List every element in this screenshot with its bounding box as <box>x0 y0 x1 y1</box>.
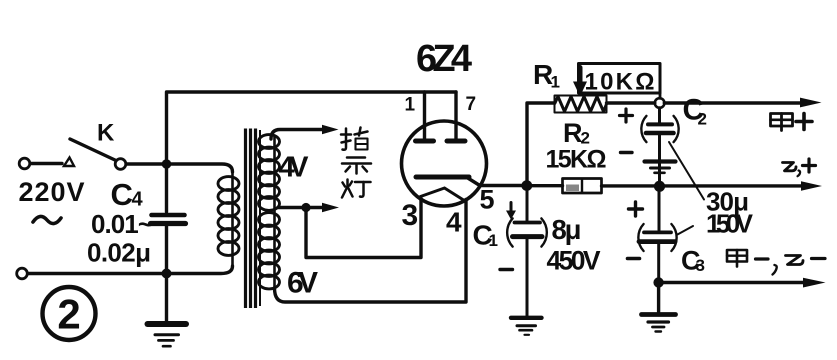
svg-text:1: 1 <box>405 95 416 116</box>
svg-text:K: K <box>97 120 115 147</box>
svg-text:1: 1 <box>551 73 560 92</box>
svg-text:3: 3 <box>696 256 705 275</box>
svg-text:4: 4 <box>132 189 144 211</box>
svg-text:5: 5 <box>480 185 495 215</box>
svg-text:8μ: 8μ <box>552 214 582 245</box>
svg-text:4V: 4V <box>279 152 310 184</box>
svg-text:6V: 6V <box>287 267 318 300</box>
svg-text:15KΩ: 15KΩ <box>546 146 607 174</box>
svg-text:0.01~: 0.01~ <box>91 209 153 239</box>
svg-text:6Z4: 6Z4 <box>416 38 472 80</box>
svg-text:7: 7 <box>466 94 477 115</box>
svg-text:2: 2 <box>698 110 707 129</box>
svg-text:2: 2 <box>57 291 80 338</box>
svg-text:C: C <box>111 177 133 212</box>
svg-text:450V: 450V <box>547 246 601 276</box>
svg-text:0.02μ: 0.02μ <box>87 238 151 268</box>
svg-text:3: 3 <box>402 199 419 232</box>
svg-text:4: 4 <box>446 207 462 238</box>
svg-text:1: 1 <box>489 231 498 250</box>
svg-text:10KΩ: 10KΩ <box>585 69 655 96</box>
svg-text:220V: 220V <box>19 177 85 207</box>
svg-text:150V: 150V <box>706 209 754 239</box>
